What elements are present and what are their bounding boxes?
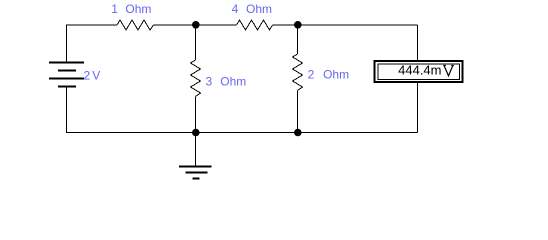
label R2 value 2 Ohm bbox=[308, 67, 349, 81]
svg-text:2: 2 bbox=[84, 69, 91, 83]
resistor R4 4 Ohm bbox=[237, 20, 273, 30]
svg-text:Ohm: Ohm bbox=[246, 2, 272, 16]
wire R3 down to bottom node C bbox=[195, 97, 197, 133]
svg-text:444.4m: 444.4m bbox=[398, 63, 441, 78]
svg-text:Ohm: Ohm bbox=[323, 67, 349, 81]
svg-text:2: 2 bbox=[308, 67, 315, 81]
label battery value 2 V bbox=[84, 69, 101, 83]
resistor R3 3 Ohm bbox=[191, 60, 201, 97]
resistor R2 2 Ohm bbox=[293, 54, 303, 91]
svg-text:1: 1 bbox=[111, 2, 118, 16]
svg-text:4: 4 bbox=[232, 2, 239, 16]
svg-text:Ohm: Ohm bbox=[125, 2, 151, 16]
battery V1 2 V bbox=[49, 25, 84, 133]
label R4 value 4 Ohm bbox=[232, 2, 272, 16]
bottom wire bbox=[66, 132, 418, 134]
wire right down to voltmeter bbox=[417, 25, 419, 60]
svg-text:Ohm: Ohm bbox=[220, 75, 246, 89]
label R3 value 3 Ohm bbox=[206, 75, 247, 89]
wire node A down to R3 bbox=[195, 25, 197, 60]
voltmeter U1 bbox=[375, 61, 463, 82]
svg-text:V: V bbox=[92, 69, 100, 83]
wire node B down to R2 bbox=[297, 25, 299, 54]
wire R1 to node A bbox=[154, 24, 237, 26]
node D junction dot bbox=[294, 129, 302, 137]
wire R2 down to bottom node D bbox=[297, 91, 299, 133]
voltmeter unit V glyph bbox=[443, 66, 454, 76]
node A junction dot bbox=[192, 21, 200, 29]
wire top from battery to R1 bbox=[66, 24, 117, 26]
resistor R1 1 Ohm bbox=[117, 20, 154, 30]
node B junction dot bbox=[294, 21, 302, 29]
node C junction dot bbox=[192, 129, 200, 137]
label R1 value 1 Ohm bbox=[111, 2, 151, 16]
svg-text:3: 3 bbox=[206, 75, 213, 89]
ground symbol bbox=[179, 167, 212, 179]
wire R4 to node B bbox=[273, 24, 418, 26]
wire voltmeter down to bottom bbox=[417, 83, 419, 133]
ground wire bbox=[195, 133, 197, 166]
